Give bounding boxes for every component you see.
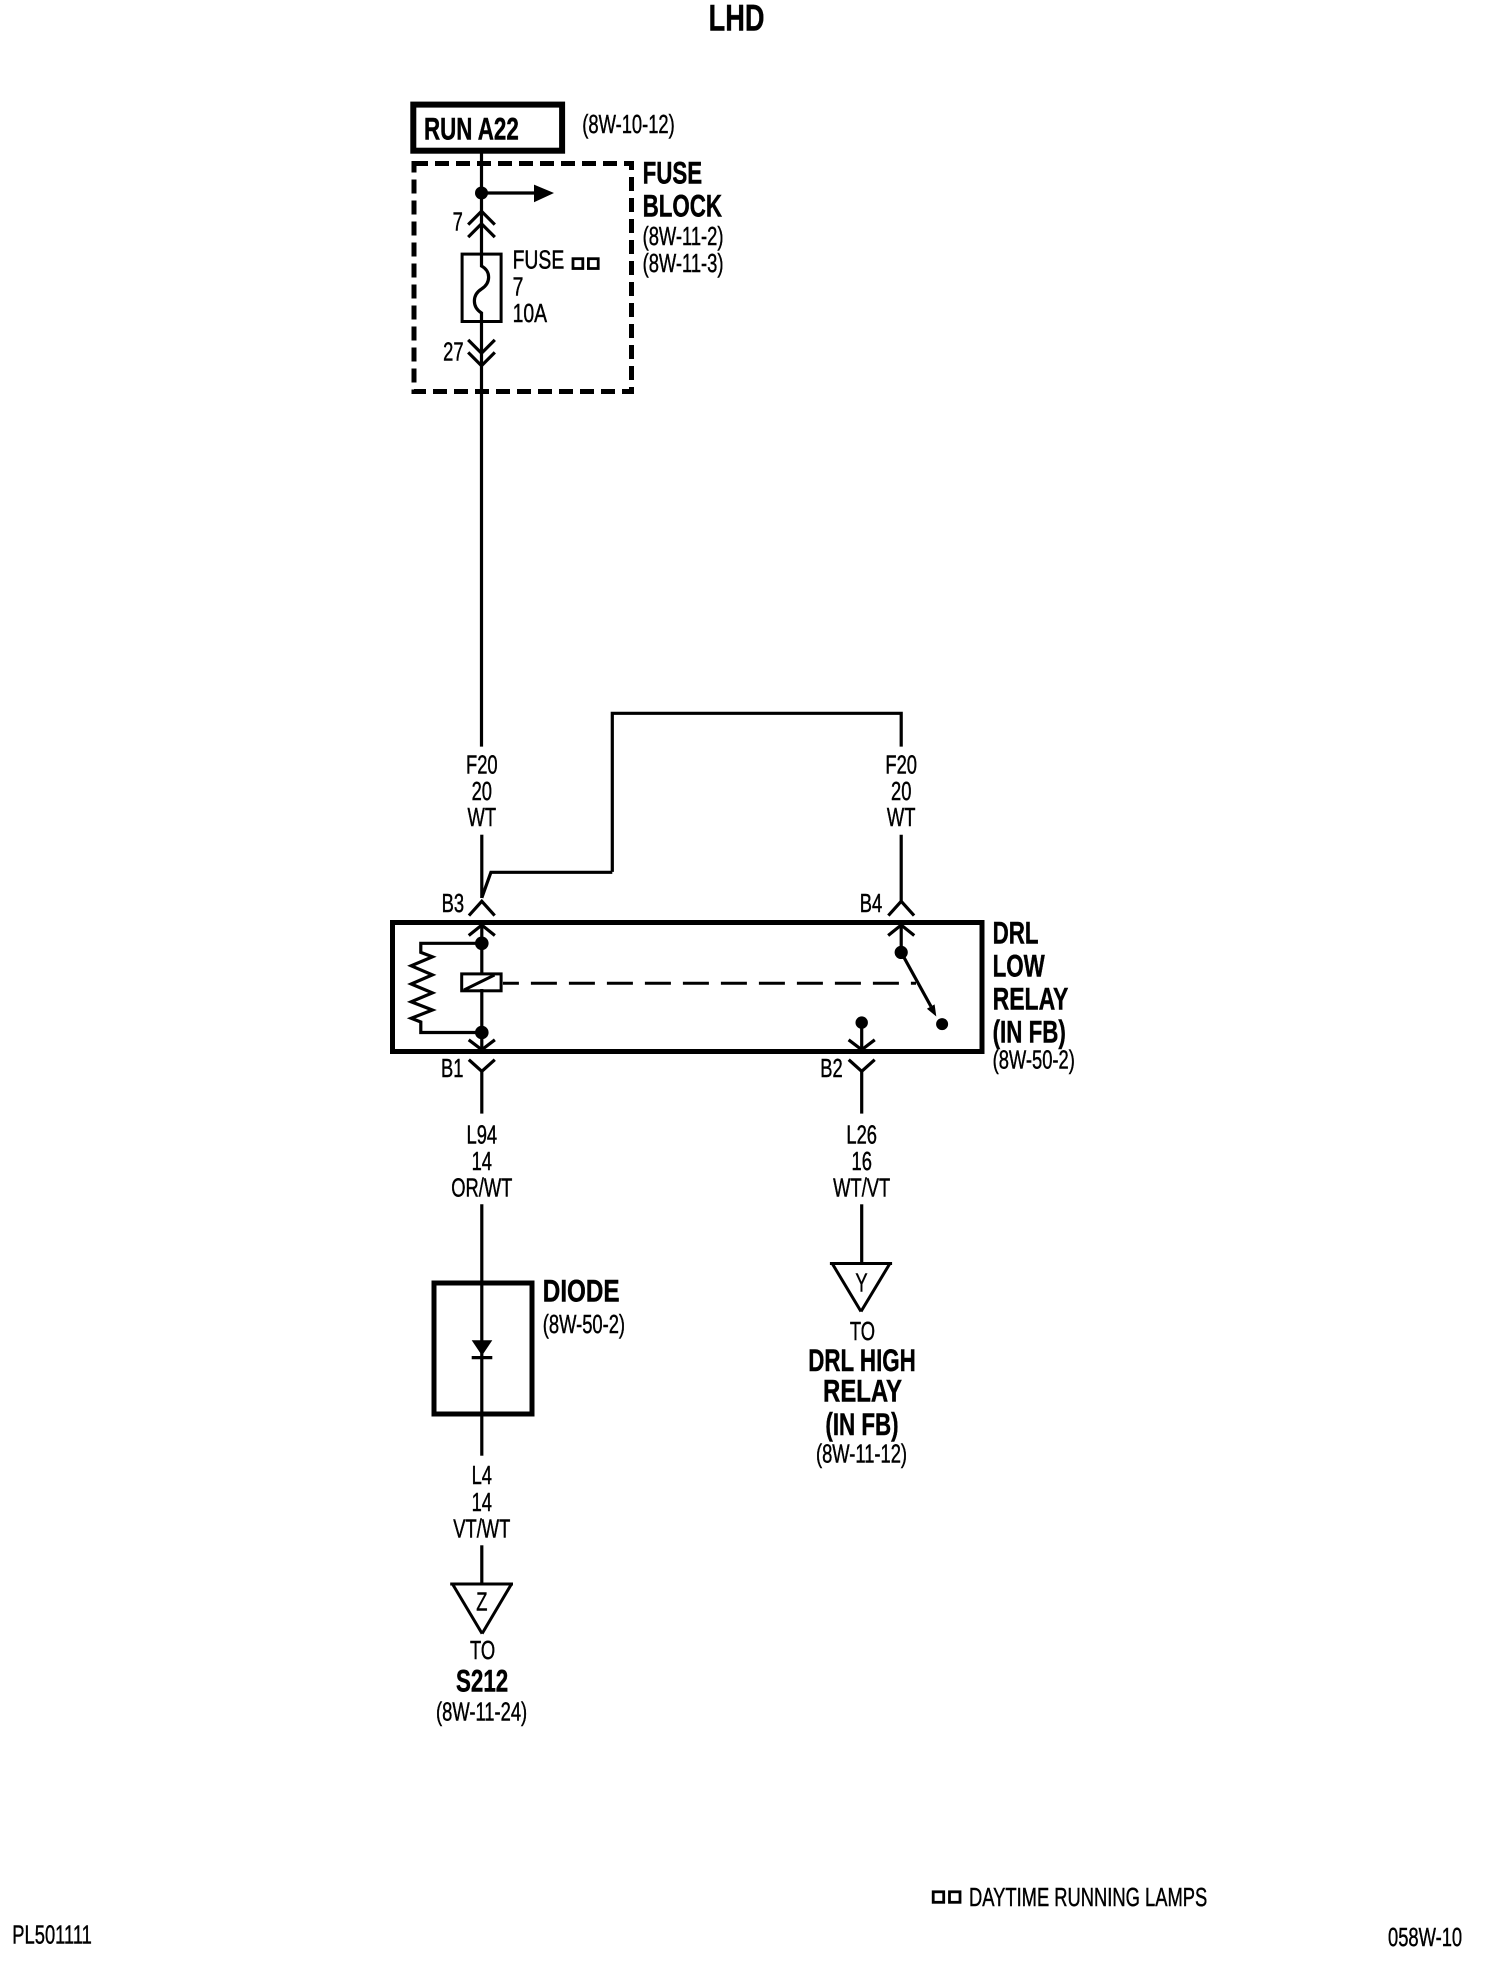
svg-text:DRL: DRL [993, 914, 1039, 950]
wire label L94 14 OR/WT [451, 1121, 513, 1203]
wire to Z connector [480, 1545, 483, 1584]
wire label F20 20 WT (left) [466, 751, 498, 832]
svg-text:DIODE: DIODE [543, 1274, 620, 1309]
wire from fuse down through connector 27 [480, 322, 483, 747]
label DRL LOW RELAY (IN FB) (8W-50-2) [993, 914, 1075, 1074]
wire coil to B1 [480, 989, 483, 1049]
label FUSE BLOCK [643, 155, 724, 278]
wire resuming to B3 [480, 835, 483, 898]
svg-text:VT/WT: VT/WT [453, 1515, 510, 1544]
svg-text:LHD: LHD [709, 0, 765, 39]
svg-text:RELAY: RELAY [993, 981, 1069, 1016]
wire B4 into switch pivot [900, 926, 903, 953]
svg-text:RELAY: RELAY [823, 1373, 902, 1408]
wire B1 down [480, 1071, 483, 1113]
svg-text:F20: F20 [885, 751, 917, 780]
relay coil box [462, 974, 501, 991]
wire label L26 16 WT/VT [833, 1121, 890, 1203]
legend squares daytime running lamps [933, 1892, 960, 1903]
splice arrow to right [482, 185, 555, 203]
svg-text:(8W-50-2): (8W-50-2) [993, 1045, 1075, 1074]
diode D1 box [434, 1283, 532, 1414]
switch arm with arrowhead [901, 952, 936, 1016]
svg-text:7: 7 [453, 208, 463, 237]
node dot bottom of coil [475, 1026, 489, 1040]
connector B4 chevrons [889, 901, 913, 934]
wire to Y connector [860, 1204, 863, 1263]
wire B2 down [860, 1071, 863, 1113]
svg-text:14: 14 [472, 1488, 492, 1517]
svg-text:LOW: LOW [993, 948, 1045, 984]
svg-text:OR/WT: OR/WT [451, 1174, 513, 1203]
connector B3 chevrons [470, 901, 494, 934]
node dot top of coil [475, 937, 489, 951]
svg-text:BLOCK: BLOCK [643, 188, 723, 224]
label TO DRL HIGH RELAY (IN FB) (8W-11-12) [808, 1317, 916, 1468]
branch wire to B4 [482, 713, 901, 898]
svg-text:(IN FB): (IN FB) [825, 1406, 898, 1442]
svg-text:PL501111: PL501111 [12, 1921, 92, 1950]
svg-text:(8W-10-12): (8W-10-12) [582, 110, 674, 139]
off-page connector Y triangle [830, 1264, 892, 1312]
svg-text:L4: L4 [472, 1461, 492, 1490]
off-page connector Z triangle [450, 1584, 513, 1634]
svg-text:14: 14 [472, 1147, 492, 1176]
label TO S212 (8W-11-24) [436, 1636, 527, 1726]
svg-text:WT: WT [887, 803, 916, 832]
B2 contact dot [856, 1016, 868, 1028]
fuse block dashed box [414, 164, 632, 392]
svg-text:16: 16 [851, 1147, 871, 1176]
wire through diode [480, 1283, 483, 1414]
connector pin 27 chevrons [469, 341, 493, 366]
dashed mechanical link [503, 982, 916, 985]
resistor (relay coil suppression) [411, 943, 482, 1032]
legend squares next to FUSE [573, 259, 598, 269]
svg-text:B3: B3 [442, 889, 464, 918]
svg-text:(8W-50-2): (8W-50-2) [543, 1310, 625, 1339]
svg-text:(8W-11-24): (8W-11-24) [436, 1697, 527, 1726]
svg-text:20: 20 [472, 777, 492, 806]
svg-text:B1: B1 [441, 1054, 463, 1083]
wire B2 stem [860, 1023, 863, 1049]
svg-text:L94: L94 [466, 1121, 497, 1150]
svg-text:WT/VT: WT/VT [833, 1174, 890, 1203]
svg-text:F20: F20 [466, 751, 498, 780]
wire label L4 14 VT/WT [453, 1461, 510, 1543]
diode symbol [472, 1340, 493, 1357]
wire label F20 20 WT (right) [885, 751, 917, 832]
connector B2 chevrons [850, 1041, 874, 1072]
svg-text:L26: L26 [846, 1121, 877, 1150]
junction dot [475, 187, 488, 200]
wire to diode [480, 1204, 483, 1283]
svg-text:B4: B4 [860, 889, 882, 918]
svg-text:(IN FB): (IN FB) [993, 1014, 1066, 1050]
svg-text:FUSE: FUSE [643, 155, 703, 191]
wire from RUN A22 down to fuse [480, 150, 483, 254]
power node RUN A22 box [413, 105, 562, 151]
connector pin 7 chevrons [469, 211, 493, 236]
wire B3 into coil [480, 926, 483, 973]
svg-text:10A: 10A [513, 300, 548, 328]
fuse F7 body [462, 254, 501, 321]
svg-text:S212: S212 [456, 1663, 508, 1699]
svg-text:FUSE: FUSE [513, 246, 565, 274]
svg-text:(8W-11-3): (8W-11-3) [643, 249, 724, 278]
connector B1 chevrons [470, 1041, 494, 1072]
wire resuming to B4 [900, 835, 903, 901]
svg-text:DAYTIME RUNNING LAMPS: DAYTIME RUNNING LAMPS [969, 1883, 1207, 1912]
svg-text:Z: Z [476, 1588, 487, 1617]
svg-text:RUN A22: RUN A22 [424, 111, 519, 147]
svg-text:Y: Y [855, 1269, 867, 1298]
DRL low relay box [393, 923, 983, 1052]
svg-text:(8W-11-12): (8W-11-12) [816, 1439, 907, 1468]
svg-text:(8W-11-2): (8W-11-2) [643, 222, 724, 251]
svg-text:B2: B2 [820, 1054, 842, 1083]
switch contact dot [936, 1018, 948, 1030]
svg-text:TO: TO [470, 1636, 495, 1665]
svg-text:27: 27 [443, 338, 463, 367]
wire below diode [480, 1414, 483, 1456]
svg-text:20: 20 [891, 777, 911, 806]
fuse element S-curve [474, 254, 488, 322]
svg-text:7: 7 [513, 273, 524, 301]
svg-text:WT: WT [468, 803, 497, 832]
svg-text:058W-10: 058W-10 [1388, 1923, 1462, 1952]
switch pivot dot [895, 946, 908, 959]
